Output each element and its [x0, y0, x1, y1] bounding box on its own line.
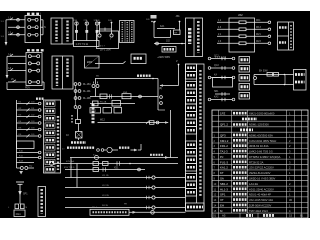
svg-text:A5: A5 [222, 214, 226, 218]
svg-text:DJR-50W AC220V: DJR-50W AC220V [249, 203, 271, 207]
svg-text:W13: W13 [256, 27, 261, 29]
BOM part row 15 [212, 209, 308, 213]
T1 vertical label [197, 21, 200, 53]
riser cross link [100, 28, 112, 31]
T2 terminal cell 8 [186, 119, 197, 127]
wire L3 to QF2 [8, 68, 26, 70]
svg-text:~220V 50Hz: ~220V 50Hz [157, 56, 171, 59]
svg-text:HL1-3: HL1-3 [220, 187, 228, 191]
control bus upper [95, 76, 158, 80]
wire feed to meter [95, 61, 126, 63]
T2 vertical label upper [199, 70, 201, 130]
svg-text:KVV 7x1.5: KVV 7x1.5 [64, 167, 75, 169]
svg-text:JX2-1015 500V 10A: JX2-1015 500V 10A [249, 198, 273, 202]
svg-text:2TA: 2TA [84, 19, 88, 22]
breaker QF1 title label [27, 13, 41, 15]
svg-text:W11: W11 [256, 20, 261, 22]
T2 terminal cell 12 [186, 156, 197, 164]
svg-text:JR36-63 40-63A: JR36-63 40-63A [249, 144, 269, 148]
BOM row QF main [212, 123, 308, 127]
T2 terminal cell 11 [186, 149, 197, 157]
control frame box [97, 31, 119, 49]
control bus row B [65, 161, 178, 166]
svg-text:4XV 4x4: 4XV 4x4 [66, 161, 75, 163]
BOM footer dividers [219, 213, 302, 218]
interlock rung QC1 [208, 55, 235, 60]
control wire to T2 mid [98, 120, 169, 125]
wire L3 to QF1 [8, 32, 25, 36]
supply bus riser 1 [5, 20, 8, 46]
svg-text:SP1: SP1 [220, 193, 226, 197]
breaker QF1 pole row 2 [28, 26, 38, 29]
power bus L12 [65, 185, 186, 189]
svg-text:1PZ: 1PZ [220, 111, 226, 115]
svg-text:KA: KA [214, 73, 218, 76]
T2 terminal cell 7 [186, 112, 197, 120]
BOM section header [212, 130, 308, 132]
BOM part row 2 [212, 139, 308, 143]
door contact pair [17, 166, 35, 175]
svg-text:KM1.2: KM1.2 [220, 139, 229, 143]
terminal rung K4 [17, 121, 42, 124]
svg-text:NDM1-125/3300: NDM1-125/3300 [249, 123, 269, 127]
svg-text:PEN: PEN [25, 87, 30, 89]
heater circuit loop [254, 71, 294, 86]
T2 terminal cell 9 [186, 127, 197, 135]
svg-text:FR1.2: FR1.2 [220, 144, 228, 148]
T2 terminal cell 15 [186, 181, 197, 189]
svg-text:KM1: KM1 [123, 92, 128, 94]
left tower cell 5 [45, 130, 55, 135]
branch verticals [71, 158, 77, 188]
svg-text:1 3 5 7: 1 3 5 7 [98, 46, 105, 48]
BOM header row 1 [212, 111, 308, 115]
svg-text:EH: EH [220, 203, 224, 207]
T2 vertical label lower [199, 140, 201, 196]
JX2 row 4 [217, 41, 271, 45]
power bus L11 [65, 175, 186, 179]
svg-text:FU1-3: FU1-3 [220, 160, 228, 164]
relay contact branch [157, 25, 175, 29]
BOM part row 13 [212, 198, 308, 202]
left tower cell 3 [45, 116, 55, 121]
frame around T2 inputs [158, 79, 165, 111]
breaker QF1 pole row 1 [28, 18, 38, 21]
svg-text:QF1.2: QF1.2 [220, 123, 228, 127]
JX2 row 1 [217, 20, 271, 24]
relay output row K1 [62, 144, 141, 153]
BOM part row 9 [212, 177, 308, 181]
T2 terminal cell 6 [186, 104, 197, 112]
legend XT-B text column 2 [66, 59, 68, 79]
generator terminal G [50, 162, 66, 166]
svg-text:1TA: 1TA [73, 19, 77, 22]
BOM part row 10 [212, 182, 308, 186]
wire L1 to QF2 [8, 54, 26, 56]
svg-text:KA1: KA1 [160, 25, 165, 28]
thermal relay FR block [76, 108, 81, 123]
svg-text:W12: W12 [100, 120, 105, 122]
control source tag [157, 56, 171, 59]
svg-text:TA1-3: TA1-3 [220, 150, 228, 154]
terminal rung lower 2 [17, 156, 42, 159]
svg-text:15: 15 [289, 214, 292, 218]
svg-text:KA2: KA2 [214, 95, 219, 98]
breaker QF1 enclosure [25, 16, 41, 43]
protection panel T1 [186, 18, 203, 57]
BOM part row 1 [212, 133, 308, 137]
supply bus riser 2 [6, 56, 9, 78]
JX2 row 3 [217, 34, 271, 38]
svg-text:kWh: kWh [87, 60, 93, 64]
cable tag vertical dim [71, 115, 73, 124]
svg-text:SA: SA [220, 177, 224, 181]
breaker QF2 pole row 3 [28, 69, 39, 72]
terminal rung lower 3 [17, 161, 35, 163]
left ladder bus [16, 100, 18, 168]
svg-text:L13 35: L13 35 [102, 195, 109, 197]
svg-text:W23: W23 [256, 41, 261, 43]
svg-text:SB1: SB1 [214, 91, 219, 93]
BOM part row 8 [212, 171, 308, 175]
phase tag labels [1, 21, 5, 38]
T2 terminal cell 5 [186, 97, 197, 105]
BOM part row 6 [212, 160, 308, 164]
svg-text:N: N [44, 26, 46, 29]
svg-text:JSZ3A-B AC220V: JSZ3A-B AC220V [249, 171, 271, 175]
T2 terminal cell 14 [186, 174, 197, 182]
terminal rung K1 [17, 102, 42, 105]
surge arrester SP1 [16, 182, 28, 204]
QF1 load side connections [41, 20, 46, 35]
legend XT-A text column 2 [66, 21, 68, 42]
interlock rung KA2 [208, 95, 235, 101]
control bus row A [70, 155, 178, 160]
R1 text upper [279, 26, 288, 29]
indicator cell S5 [239, 93, 250, 100]
svg-text:W21: W21 [256, 34, 261, 36]
busbar assembly box [90, 207, 129, 215]
left tower cell 9 [45, 159, 55, 164]
cable tag vertical bright [92, 104, 95, 124]
breaker QF2 pole row 1 [28, 55, 39, 58]
legend XT-A text column 1 [55, 21, 57, 42]
riser to bus rows [170, 110, 172, 158]
indicator cell S4 [239, 84, 250, 91]
svg-text:QC1: QC1 [214, 55, 219, 57]
svg-text:LA4-3H: LA4-3H [249, 182, 258, 186]
neutral return wire [7, 82, 44, 90]
svg-text:L11 35: L11 35 [102, 175, 109, 177]
left tower cell 6 [45, 138, 55, 143]
control bus row C [64, 167, 145, 172]
CT terminal box [74, 41, 100, 47]
SP1 module pair [8, 204, 28, 209]
svg-text:DL-184: DL-184 [83, 84, 91, 86]
relay KT box [174, 22, 181, 35]
svg-text:3P+1: 3P+1 [92, 207, 98, 209]
svg-text:RJ: RJ [66, 135, 69, 137]
wire L1 to QF1 [8, 17, 25, 21]
node 1 with tag [146, 19, 155, 23]
aux contact chain [74, 83, 91, 109]
left tower cell 1 [45, 101, 55, 106]
legend box XT-A [51, 18, 73, 44]
interlock loop frame [213, 78, 233, 88]
indicator cell S1 [239, 57, 250, 64]
svg-text:(Z): (Z) [159, 87, 162, 90]
control riser tap 2 [108, 20, 113, 37]
T2 terminal cell 16 [186, 189, 197, 197]
relay coil KM box [162, 47, 176, 53]
svg-text:L12 35: L12 35 [102, 185, 109, 187]
breaker QF2 enclosure [26, 53, 42, 86]
sheet note top-center [151, 15, 157, 22]
svg-text:EH 50W: EH 50W [259, 71, 268, 73]
terminal strip XT1 [120, 21, 135, 43]
control bus lower [90, 101, 135, 107]
svg-text:RT28-32 2A: RT28-32 2A [249, 160, 264, 164]
svg-text:DL-198: DL-198 [83, 98, 91, 100]
current transformers TA1-TA3 [73, 19, 99, 41]
svg-text:JX2: JX2 [238, 13, 243, 17]
left tower cell 8 [45, 152, 55, 157]
power bus N1 [65, 205, 186, 209]
svg-text:JX1: JX1 [176, 15, 181, 18]
BOM footer row [213, 214, 304, 218]
bill of materials table frame [212, 110, 308, 218]
control bus middle [90, 92, 158, 99]
label JX2 [238, 13, 243, 17]
svg-text:LMK2-0.66 75/5 0.5: LMK2-0.66 75/5 0.5 [249, 150, 273, 154]
motor feeder tag [71, 138, 86, 143]
PE link wire [124, 204, 186, 215]
svg-text:TMY-40x4 15x3: TMY-40x4 15x3 [249, 209, 268, 213]
T2 terminal cell 10 [186, 141, 197, 149]
left tower cell 2 [45, 108, 55, 113]
R1 text lower [279, 41, 286, 44]
legend box XT-B [52, 56, 73, 89]
left tower cell 10 [45, 167, 55, 172]
indicator cell S3 [239, 75, 250, 82]
svg-text:XMJ1-G030 800x600: XMJ1-G030 800x600 [249, 111, 275, 115]
svg-text:DTS854 3x380V 3x5(20)A: DTS854 3x380V 3x5(20)A [249, 155, 281, 159]
breaker QF1 pole row 3 [28, 33, 38, 36]
BOM part row 11 [212, 187, 308, 191]
labels under JX2 [215, 57, 227, 59]
svg-text:NDM1-63/3300 63A: NDM1-63/3300 63A [249, 133, 273, 137]
svg-text:SQ: SQ [29, 166, 32, 168]
terminal tower T2 outline [186, 64, 205, 211]
svg-text:KA1.2: KA1.2 [220, 166, 228, 170]
terminal rung K2 [17, 108, 42, 111]
interlock rung SB1 [214, 91, 230, 96]
T2 terminal cell 3 [186, 82, 197, 90]
heater element RJ [66, 124, 82, 139]
svg-text:QF3: QF3 [220, 133, 226, 137]
terminal rung K5 [17, 128, 42, 131]
left tower cell 4 [45, 123, 55, 128]
terminal rung lower 1 [17, 151, 42, 154]
BOM part row 14 [212, 203, 308, 207]
JX2 row 2 [217, 27, 271, 31]
kWh meter PJ [85, 56, 100, 68]
svg-text:KA1: KA1 [92, 110, 97, 113]
T2 terminal cell 4 [186, 89, 197, 97]
svg-text:B1: B1 [300, 214, 304, 218]
svg-text:ZK-1 25A: ZK-1 25A [100, 49, 111, 52]
legend XT-B text column 1 [56, 59, 58, 87]
svg-text:SB1.2: SB1.2 [220, 182, 228, 186]
svg-text:40kA: 40kA [16, 213, 22, 216]
BOM column dividers [219, 110, 302, 213]
left tower vertical label [57, 116, 59, 170]
right legend table R1 [278, 22, 294, 50]
svg-text:KT: KT [220, 171, 224, 175]
T1 device text block [188, 28, 191, 44]
BOM part row 12 [212, 193, 308, 197]
left tower cell 7 [45, 145, 55, 150]
svg-text:NDU1-40 40kA 4P: NDU1-40 40kA 4P [249, 193, 271, 197]
vertical nameplate [38, 187, 46, 217]
T2 terminal cell 1 [186, 64, 197, 72]
svg-text:PJ: PJ [220, 155, 224, 159]
heater legend box R2 [294, 70, 307, 91]
control riser tap 1 [96, 20, 101, 37]
svg-text:CJX2-6311 380V 50Hz: CJX2-6311 380V 50Hz [249, 139, 277, 143]
svg-text:SP1: SP1 [23, 193, 28, 196]
terminal rung K3 [17, 115, 42, 118]
wire node1 drop [154, 22, 171, 38]
label under modules [100, 49, 111, 52]
T2 footer cell [186, 203, 205, 211]
node JX1 with tag [176, 15, 181, 22]
BOM part row 3 [212, 144, 308, 148]
breaker QF2 pole row 4 [28, 81, 39, 84]
svg-text:1 3 5 7 9 11: 1 3 5 7 9 11 [76, 43, 89, 46]
breaker QF2 pole row 2 [28, 62, 39, 65]
wire L2 to QF1 [8, 26, 25, 29]
indicator cell S2 [239, 66, 250, 73]
left tower outline [44, 100, 61, 173]
BOM part row 7 [212, 166, 308, 170]
BOM part row 5 [212, 155, 308, 159]
BOM part row 4 [212, 150, 308, 154]
power bus L13 [65, 195, 186, 199]
interlock rung KA [208, 73, 235, 79]
control feed wire [154, 41, 186, 45]
svg-text:AD11-25/40 AC220V: AD11-25/40 AC220V [249, 187, 274, 191]
svg-text:DL-191: DL-191 [83, 91, 91, 93]
svg-text:XS1: XS1 [114, 167, 119, 169]
SP1 base box [14, 210, 25, 217]
wire L2 to QF2 [8, 62, 26, 64]
svg-text:QC2: QC2 [214, 65, 219, 67]
T2 feed drop [160, 61, 180, 87]
svg-text:JZX-22F/2Z AC220V: JZX-22F/2Z AC220V [249, 166, 274, 170]
terminal strip JX2 box [229, 18, 255, 52]
ladder top bright tag [36, 97, 44, 99]
terminal rung K6 [17, 134, 42, 137]
T2 terminal cell 2 [186, 72, 197, 80]
BOM header row 2 [212, 119, 308, 121]
svg-text:N1 35: N1 35 [102, 205, 109, 207]
ladder middle frame [17, 141, 35, 149]
branch contact pair [92, 79, 99, 97]
relay boxes bottom row [90, 108, 122, 114]
svg-text:LW5D-16 YH3/3 380V: LW5D-16 YH3/3 380V [249, 177, 276, 181]
changeover switch box SAC [131, 54, 146, 64]
svg-text:XT: XT [220, 198, 224, 202]
T2 terminal cell 13 [186, 164, 197, 172]
R1 vertical strip [290, 25, 292, 48]
breaker QF2 title label [27, 49, 44, 51]
interlock rung QC2 [208, 65, 235, 70]
wire L5 to QF2 aux [8, 79, 26, 82]
svg-text:01: 01 [213, 214, 216, 218]
svg-text:FU 2A: FU 2A [100, 101, 107, 104]
